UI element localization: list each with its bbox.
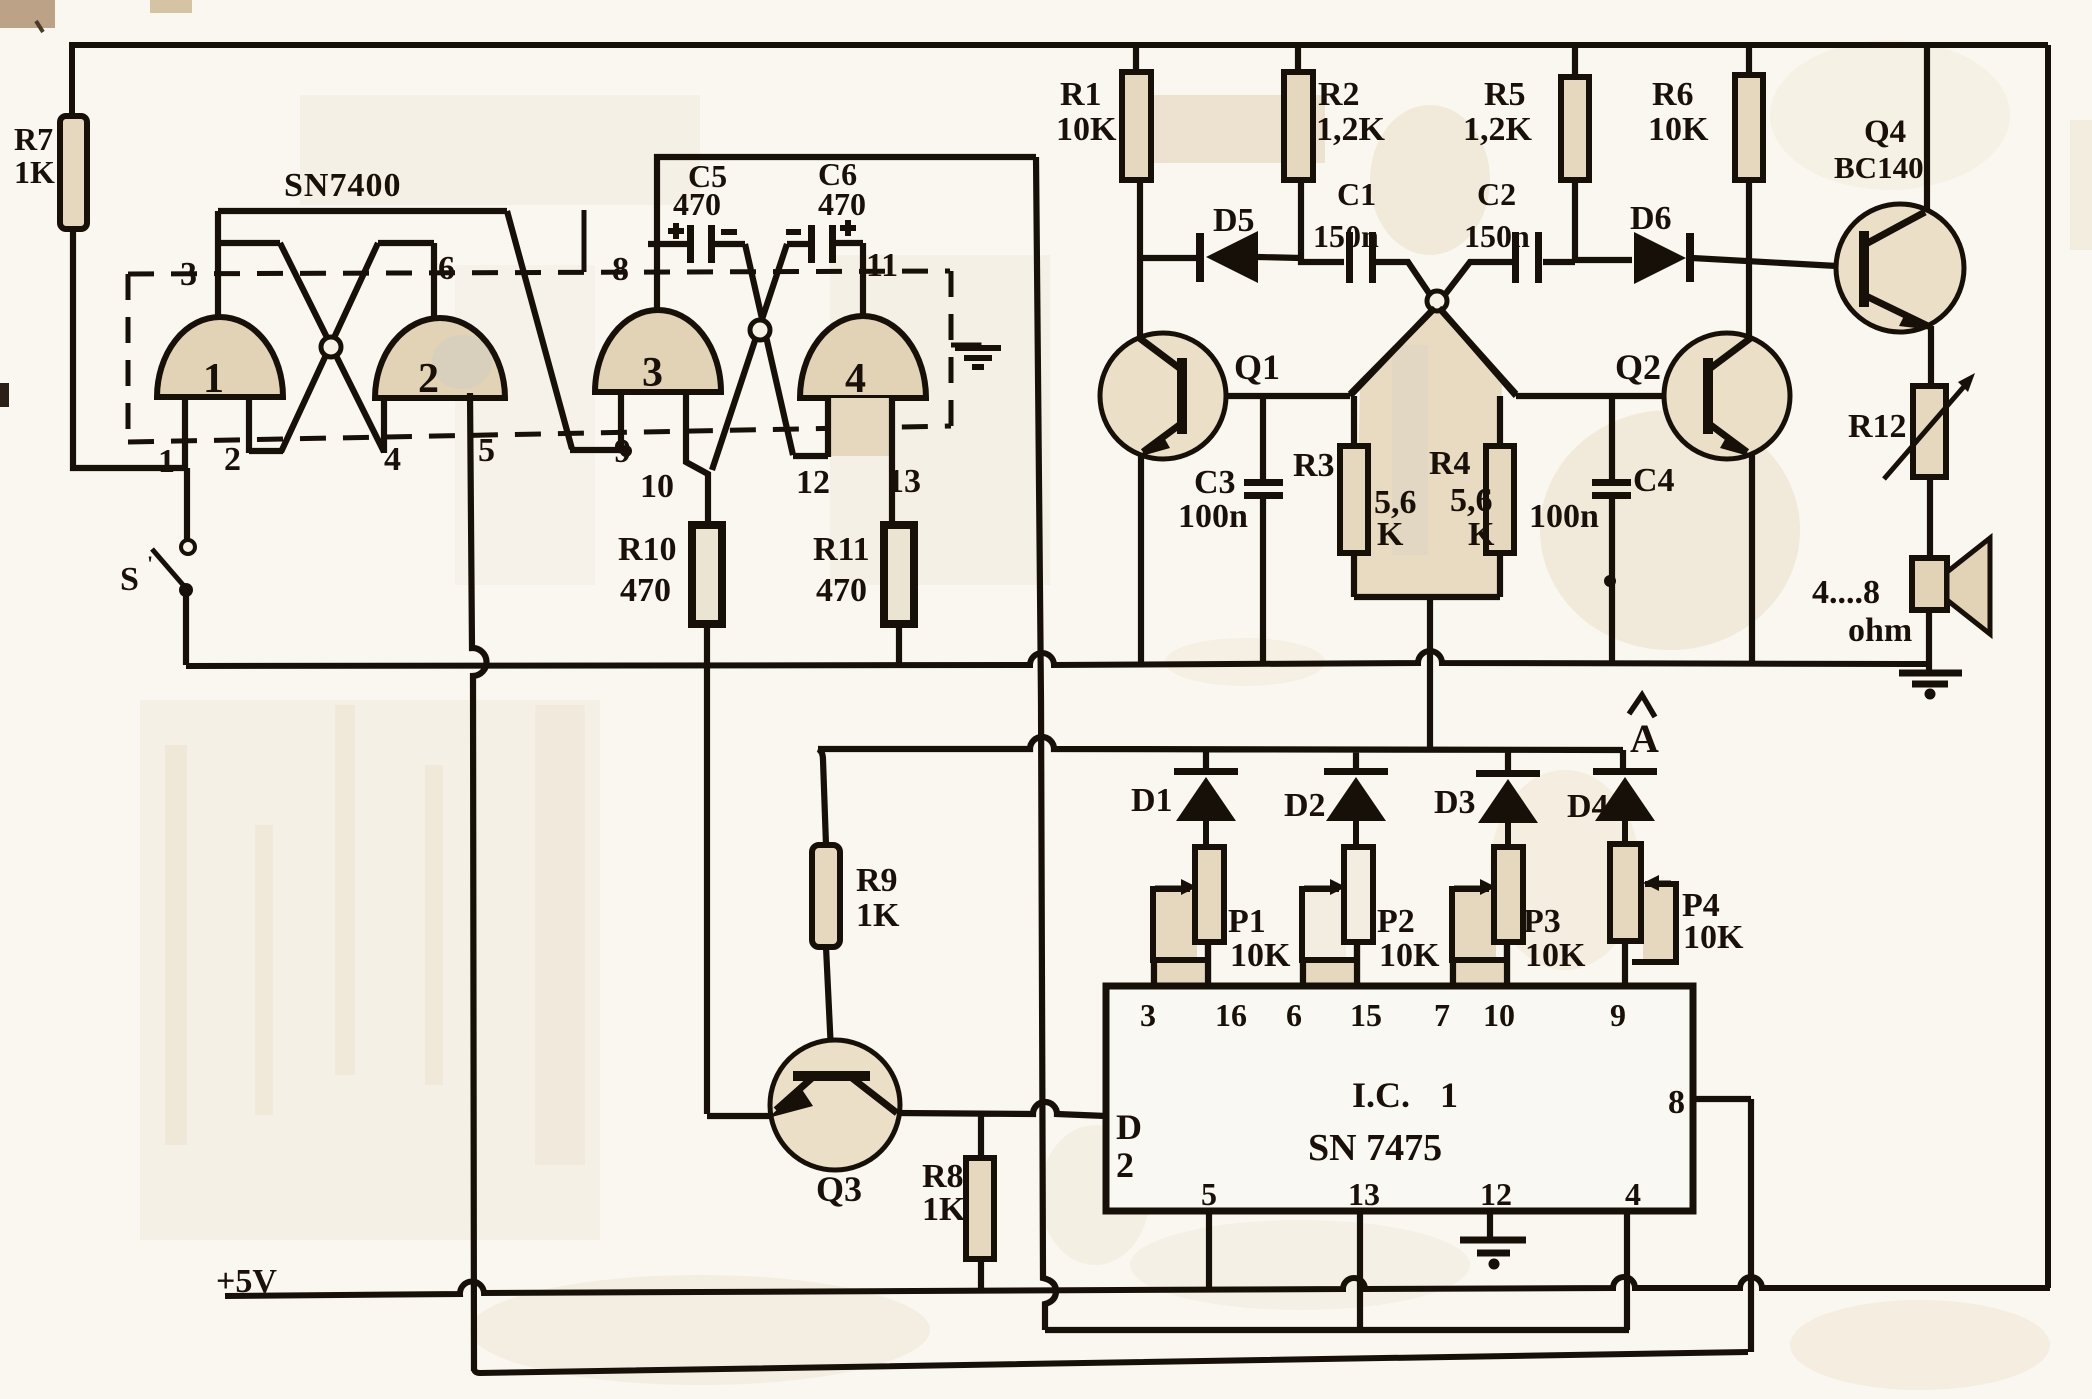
svg-text:10K: 10K	[1230, 937, 1291, 974]
svg-text:R6: R6	[1652, 76, 1694, 113]
svg-text:C3: C3	[1194, 464, 1236, 501]
svg-text:R1: R1	[1060, 76, 1102, 113]
svg-text:3: 3	[180, 256, 197, 293]
svg-text:6: 6	[1286, 997, 1302, 1033]
svg-text:R7: R7	[14, 121, 53, 157]
svg-text:10K: 10K	[1379, 937, 1440, 974]
NAND gate 1 of SN7400	[157, 317, 283, 402]
resistor R9	[812, 845, 900, 947]
diode D5	[1196, 202, 1258, 283]
svg-text:R9: R9	[856, 862, 898, 899]
pentagon stain behind R3 R4	[1355, 308, 1502, 598]
svg-text:4....8: 4....8	[1812, 574, 1880, 611]
svg-text:470: 470	[673, 186, 721, 222]
IC 1 SN7475 box	[1106, 986, 1693, 1212]
wire R6 column to Q2 collector	[1746, 45, 1752, 338]
svg-text:R5: R5	[1484, 76, 1526, 113]
capacitor C5	[668, 158, 737, 263]
resistor R8	[922, 1158, 994, 1259]
svg-text:2: 2	[224, 441, 241, 478]
svg-text:1: 1	[158, 443, 175, 480]
wire R3 R4 pentagon	[1350, 308, 1516, 748]
resistor R11	[813, 525, 914, 624]
svg-text:150n: 150n	[1313, 218, 1379, 254]
wire ground bus	[186, 651, 1929, 666]
svg-text:C4: C4	[1633, 462, 1675, 499]
svg-text:100n: 100n	[1178, 498, 1248, 535]
wire gate2 pin5 long column	[470, 393, 487, 1371]
capacitor C1	[1313, 176, 1379, 283]
svg-text:D2: D2	[1284, 787, 1326, 824]
svg-text:13: 13	[1348, 1176, 1380, 1212]
wire second bottom line pins 13-4	[1045, 1327, 1629, 1333]
resistor R1	[1056, 72, 1151, 180]
svg-text:SN7400: SN7400	[284, 167, 401, 204]
svg-text:9: 9	[614, 433, 631, 470]
ground symbol at gate 4	[955, 348, 1001, 367]
wire R8 bottom	[978, 1259, 984, 1291]
NAND gate 2 of SN7400	[375, 318, 505, 402]
svg-text:Q3: Q3	[816, 1169, 862, 1209]
wire R9 to Q3	[826, 947, 832, 1072]
svg-text:P1: P1	[1228, 903, 1266, 940]
svg-text:15: 15	[1350, 997, 1382, 1033]
svg-text:470: 470	[818, 186, 866, 222]
svg-text:C1: C1	[1337, 176, 1376, 212]
stub near pin8 label	[582, 210, 587, 272]
svg-text:P3: P3	[1523, 903, 1561, 940]
pin and part labels gates	[158, 167, 921, 505]
svg-text:D4: D4	[1567, 788, 1609, 825]
svg-text:R10: R10	[618, 531, 677, 568]
svg-text:S: S	[120, 561, 139, 598]
diode D4	[1567, 768, 1657, 844]
node A label	[1629, 695, 1659, 761]
resistor R6	[1648, 75, 1763, 180]
wire C2 to Q1 base cross	[1182, 262, 1512, 396]
svg-text:1: 1	[203, 356, 224, 402]
wire right edge	[2045, 45, 2051, 1288]
svg-text:': '	[147, 551, 153, 576]
transistor Q2	[1615, 333, 1790, 459]
svg-text:16: 16	[1215, 997, 1247, 1033]
svg-text:1,2K: 1,2K	[1316, 111, 1386, 148]
wire IC pin8	[1695, 1099, 1751, 1352]
crossover loop C1-C2	[1427, 291, 1447, 311]
svg-text:R8: R8	[922, 1158, 964, 1195]
resistor R7	[14, 116, 87, 229]
node on C4 wire	[1604, 575, 1616, 587]
svg-text:R2: R2	[1318, 76, 1360, 113]
wire R12 to speaker	[1927, 477, 1933, 558]
svg-text:470: 470	[816, 572, 867, 609]
transistor Q1	[1100, 333, 1280, 459]
svg-text:10: 10	[640, 468, 674, 505]
svg-text:5: 5	[478, 432, 495, 469]
svg-text:6: 6	[438, 250, 455, 287]
svg-text:1K: 1K	[856, 897, 900, 934]
wire R5 column to C2 and D6	[1543, 45, 1837, 266]
potentiometer R12	[1848, 373, 1975, 479]
svg-text:4: 4	[384, 441, 401, 478]
wire Q4 collector	[1924, 45, 1930, 212]
svg-text:R3: R3	[1293, 447, 1335, 484]
svg-text:10K: 10K	[1056, 111, 1117, 148]
wire Q1 emitter	[1138, 452, 1144, 665]
gate ground stub	[951, 345, 979, 349]
wire Q3 collector D-line to IC	[897, 1102, 1106, 1158]
wire bottom-most line to IC pin8	[474, 1352, 1748, 1373]
speaker 4...8 ohm	[1812, 538, 1990, 649]
svg-text:1K: 1K	[922, 1191, 966, 1228]
svg-text:Q1: Q1	[1234, 347, 1280, 387]
svg-text:100n: 100n	[1529, 498, 1599, 535]
svg-text:ohm: ohm	[1848, 612, 1912, 649]
crossover loop gates 1-2	[321, 337, 341, 357]
diode D3	[1434, 770, 1540, 847]
svg-text:4: 4	[1625, 1176, 1641, 1212]
NAND gate 3 of SN7400	[595, 310, 721, 396]
resistor R10	[618, 525, 722, 624]
wire Q4 emitter to R12	[1928, 326, 1934, 386]
NAND gate 4 of SN7400	[800, 316, 926, 456]
labels R3 R4 values	[1374, 482, 1495, 553]
capacitor C3	[1178, 464, 1283, 535]
svg-text:D1: D1	[1131, 782, 1173, 819]
svg-text:D6: D6	[1630, 200, 1672, 237]
wire R2 column to C1	[1298, 45, 1344, 262]
svg-text:9: 9	[1610, 997, 1626, 1033]
IC pin stubs top	[1154, 941, 1625, 986]
svg-text:12: 12	[1480, 1176, 1512, 1212]
IC pin stubs bottom	[1209, 1211, 1627, 1330]
svg-text:C2: C2	[1477, 176, 1516, 212]
svg-text:150n: 150n	[1464, 218, 1530, 254]
svg-text:P2: P2	[1377, 903, 1415, 940]
resistor R3	[1293, 446, 1368, 553]
wire A line	[818, 737, 1623, 845]
svg-text:4: 4	[845, 356, 866, 402]
wire speaker to ground	[1926, 610, 1932, 670]
crossover loop C5-C6	[750, 320, 770, 340]
svg-text:8: 8	[612, 251, 629, 288]
wire C4 column	[1609, 396, 1615, 665]
capacitor C2	[1464, 176, 1542, 283]
svg-text:3: 3	[1140, 997, 1156, 1033]
svg-text:10K: 10K	[1525, 937, 1586, 974]
ground symbol under IC pin12	[1460, 1240, 1526, 1253]
wire R7 top stub	[69, 42, 75, 116]
svg-text:12: 12	[796, 464, 830, 501]
svg-text:R4: R4	[1429, 445, 1471, 482]
wire gate4 pin13 to R11	[892, 395, 899, 665]
diode D1	[1131, 768, 1238, 847]
wire C1 to Q2 base cross	[1376, 262, 1708, 396]
svg-text:+5V: +5V	[216, 1263, 277, 1300]
wire C6 branch	[712, 243, 863, 470]
potentiometer P2	[1299, 847, 1440, 986]
resistor R4	[1429, 445, 1514, 553]
resistor R5	[1463, 76, 1589, 180]
svg-text:10K: 10K	[1648, 111, 1709, 148]
switch S	[120, 540, 195, 665]
wire long middle vertical column	[1036, 157, 1056, 1330]
capacitor C4	[1529, 462, 1675, 535]
svg-text:R12: R12	[1848, 408, 1907, 445]
svg-text:1,2K: 1,2K	[1463, 111, 1533, 148]
potentiometer P4	[1610, 844, 1744, 962]
wire top +5V rail	[72, 42, 2048, 48]
dashed box SN7400	[128, 271, 951, 442]
svg-text:10: 10	[1483, 997, 1515, 1033]
capacitor C6	[786, 156, 866, 263]
wire C5C6 top box	[657, 157, 1036, 310]
wire Q2 emitter	[1749, 453, 1755, 665]
wire C5 branch	[648, 244, 828, 457]
svg-text:11: 11	[866, 247, 898, 284]
svg-text:13: 13	[887, 463, 921, 500]
wire R7 bottom to gate1 pin1	[73, 229, 187, 540]
svg-text:Q2: Q2	[1615, 347, 1661, 387]
svg-text:D5: D5	[1213, 202, 1255, 239]
diode D6	[1630, 200, 1694, 284]
svg-text:1: 1	[1440, 1075, 1458, 1115]
svg-text:470: 470	[620, 572, 671, 609]
svg-text:10K: 10K	[1683, 919, 1744, 956]
svg-text:SN 7475: SN 7475	[1308, 1127, 1442, 1169]
svg-text:R11: R11	[813, 531, 870, 568]
wire bottom +5V rail	[225, 1277, 2050, 1296]
svg-text:Q4: Q4	[1864, 114, 1906, 150]
wire R1 column with D5 tap	[1136, 45, 1301, 337]
svg-text:1K: 1K	[14, 154, 55, 190]
svg-text:8: 8	[1668, 1084, 1685, 1121]
ground symbol under speaker	[1899, 673, 1962, 684]
diode D2	[1284, 768, 1388, 847]
svg-text:2: 2	[418, 356, 439, 402]
wire gate2 output pin6 cross-couple	[249, 243, 434, 453]
svg-text:BC140: BC140	[1834, 150, 1924, 185]
potentiometer P1	[1150, 847, 1291, 986]
transistor Q4 BC140	[1834, 114, 1964, 332]
svg-text:K: K	[1377, 516, 1404, 553]
wire C3 column	[1260, 398, 1266, 665]
svg-text:K: K	[1468, 516, 1495, 553]
wire gate1 output pin3 cross-couple	[218, 211, 621, 453]
svg-text:7: 7	[1434, 997, 1450, 1033]
node pin9 junction	[620, 445, 632, 457]
svg-text:A: A	[1630, 716, 1659, 761]
svg-text:2: 2	[1116, 1145, 1134, 1185]
svg-text:5: 5	[1201, 1176, 1217, 1212]
svg-text:3: 3	[642, 350, 663, 396]
potentiometer P3	[1449, 847, 1586, 986]
transistor Q3	[768, 1040, 900, 1209]
svg-text:D: D	[1116, 1107, 1142, 1147]
svg-text:I.C.: I.C.	[1352, 1075, 1410, 1115]
resistor R2	[1284, 72, 1386, 180]
wire gate3 pin10 jog to R10	[686, 392, 774, 1116]
svg-text:5,6: 5,6	[1450, 482, 1493, 519]
svg-text:D3: D3	[1434, 784, 1476, 821]
